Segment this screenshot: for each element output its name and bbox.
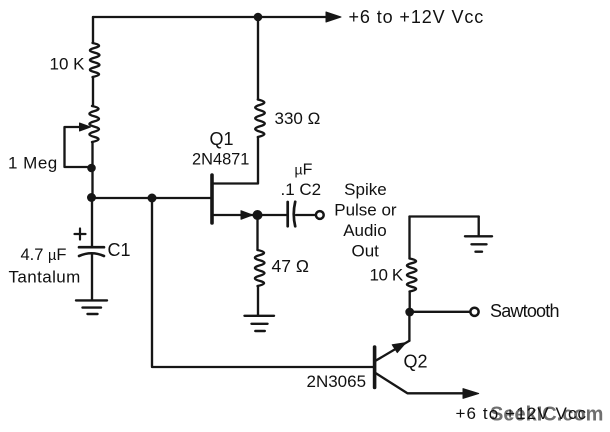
capacitor C2 right plate (curved) [294, 202, 295, 227]
wire Q2 base from RC branch [152, 198, 374, 367]
svg-text:Sawtooth: Sawtooth [490, 301, 559, 321]
transistor Q1 base bar [210, 175, 214, 223]
svg-text:Q1: Q1 [210, 129, 234, 149]
Q2 collector lead (diagonal) [376, 373, 467, 393]
sawtooth terminal [470, 308, 478, 316]
resistor R4 10 K (right) [407, 259, 417, 292]
Vcc arrow (bottom) [463, 389, 479, 399]
wire B1 node to C2 [258, 214, 288, 216]
svg-text:2N4871: 2N4871 [192, 151, 249, 169]
wire left branch top [92, 17, 94, 43]
wire RC node down to C1 [91, 198, 93, 247]
resistor R2 330 ohm [255, 100, 265, 138]
wire C2 to output terminal [296, 214, 315, 216]
node sawtooth junction [405, 308, 414, 317]
Q1 base-1 lead [213, 214, 256, 216]
Q1 base-2 lead [213, 137, 258, 184]
wire C1 to ground [91, 255, 93, 301]
wire 47 ohm to ground [257, 286, 259, 315]
wire sawtooth node to terminal [410, 311, 470, 313]
svg-text:1 Meg: 1 Meg [8, 154, 58, 173]
ground (below C1) [76, 300, 107, 314]
wire 10K to sawtooth node [409, 292, 411, 313]
wire RC node to Q1 emitter [92, 197, 212, 199]
potentiometer 1 Meg body [89, 106, 99, 142]
potentiometer wiper arm wire [65, 127, 89, 167]
Vcc arrow (top) [326, 12, 341, 22]
capacitor C2 left plate [286, 202, 289, 226]
wire B1 node down to 47 ohm [256, 215, 258, 250]
polarity plus of C1 [75, 229, 86, 240]
Q2 emitter lead (diagonal) [376, 341, 410, 361]
Q2 emitter arrow [392, 343, 406, 353]
node RC junction [87, 193, 96, 202]
wire right branch down to 10K [408, 217, 410, 259]
svg-text:2N3065: 2N3065 [307, 372, 367, 391]
svg-text:+6 to +12V Vcc: +6 to +12V Vcc [349, 7, 485, 27]
svg-text:µF: µF [295, 162, 313, 179]
svg-text:47 Ω: 47 Ω [272, 256, 309, 276]
node emitter branch junction [148, 194, 157, 203]
svg-text:+6 to +12V Vcc: +6 to +12V Vcc [456, 404, 588, 423]
resistor R3 47 ohm [255, 250, 265, 286]
svg-text:10 K: 10 K [50, 55, 86, 74]
wire 1 Meg to RC node [91, 142, 93, 198]
Q1 base-1 arrow [241, 211, 253, 220]
capacitor C1 top plate [79, 246, 104, 249]
svg-text:330 Ω: 330 Ω [275, 109, 321, 128]
svg-text:Spike Pulse or Audio Out: Spike Pulse or Audio Out [334, 180, 401, 260]
capacitor C1 bottom plate (curved) [79, 253, 104, 256]
ground (top right) [465, 236, 492, 251]
wire 10K to 1 Meg [92, 77, 94, 106]
node pot wiper junction [87, 164, 96, 173]
ground (below 47 ohm) [245, 316, 275, 331]
resistor R1 10 K (left) [90, 43, 100, 77]
svg-text:Q2: Q2 [404, 352, 428, 372]
svg-text:4.7 µF: 4.7 µF [21, 246, 67, 264]
wire right branch horizontal top [410, 215, 479, 217]
output terminal (spike pulse) [316, 211, 324, 219]
wire ground stub (top right) [478, 217, 480, 237]
wire top supply rail [93, 16, 330, 18]
transistor Q2 base bar [373, 347, 377, 388]
potentiometer wiper arrow [80, 123, 91, 131]
svg-text:Tantalum: Tantalum [9, 268, 81, 287]
wire sawtooth node down to Q2 emitter corner [408, 312, 410, 341]
svg-text:C1: C1 [108, 240, 131, 260]
wire top rail to 330 ohm [257, 17, 259, 100]
svg-text:10 K: 10 K [370, 266, 404, 285]
node B1 output junction [253, 210, 263, 220]
svg-text:.1 C2: .1 C2 [281, 180, 322, 199]
node top rail junction [254, 13, 263, 22]
